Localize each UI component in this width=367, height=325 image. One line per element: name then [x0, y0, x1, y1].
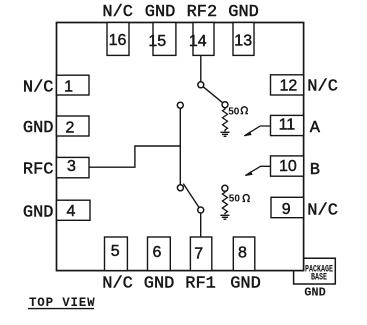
contact circle top of common bus	[177, 102, 183, 108]
pin 10	[271, 156, 304, 176]
svg-text:GND: GND	[144, 274, 175, 293]
pin 2	[57, 116, 90, 136]
wire from contact down to pin 7 RF1	[200, 210, 202, 237]
svg-text:N/C: N/C	[307, 78, 338, 97]
svg-text:13: 13	[234, 32, 252, 49]
pin 4	[57, 200, 91, 220]
svg-text:14: 14	[189, 33, 207, 50]
pin 9	[271, 197, 304, 218]
contact circle on RF2 line	[198, 82, 204, 88]
package base pad box	[294, 258, 336, 284]
ground (top resistor)	[221, 132, 230, 136]
pin 7	[190, 237, 211, 271]
svg-text:10: 10	[279, 158, 297, 175]
svg-text:GND: GND	[228, 3, 259, 22]
pin 11	[271, 115, 304, 135]
svg-text:50: 50	[228, 106, 240, 117]
svg-text:8: 8	[238, 244, 247, 261]
wire from pin 14 RF2 down to contact	[200, 55, 202, 84]
ground (bottom resistor)	[220, 215, 229, 219]
svg-text:N/C: N/C	[102, 274, 133, 293]
svg-text:6: 6	[153, 244, 162, 261]
wire common bus	[179, 105, 181, 188]
svg-text:A: A	[310, 119, 321, 138]
svg-text:12: 12	[280, 77, 298, 94]
switch arm common to RF1	[183, 184, 200, 210]
control arrow into pin 10 (B)	[245, 166, 270, 175]
pin 13	[233, 23, 254, 56]
svg-text:GND: GND	[23, 203, 54, 222]
label PACKAGE BASE	[305, 263, 333, 282]
svg-text:BASE: BASE	[311, 271, 327, 283]
svg-text:GND: GND	[23, 119, 54, 138]
svg-text:15: 15	[148, 33, 166, 50]
switch arm RF2 to 50 ohm termination	[201, 85, 225, 105]
svg-text:RFC: RFC	[23, 161, 54, 180]
pin 15	[148, 23, 175, 56]
wire RFC feed from pin 3 to common bus	[89, 146, 180, 167]
svg-text:3: 3	[67, 158, 76, 175]
contact circle on RF1 line	[198, 207, 204, 213]
contact circle bottom of common bus	[177, 185, 183, 191]
svg-text:GND: GND	[304, 285, 326, 299]
svg-text:RF1: RF1	[185, 274, 216, 293]
pin 3	[57, 157, 90, 177]
pin 14	[189, 23, 214, 56]
svg-text:N/C: N/C	[23, 78, 54, 97]
package outline	[57, 23, 304, 271]
svg-text:4: 4	[66, 203, 75, 220]
svg-text:9: 9	[282, 201, 291, 218]
svg-text:GND: GND	[145, 3, 176, 22]
svg-text:GND: GND	[230, 274, 261, 293]
svg-text:B: B	[310, 161, 320, 180]
control arrow into pin 11 (A)	[244, 126, 270, 136]
svg-text:N/C: N/C	[102, 3, 133, 22]
svg-text:2: 2	[66, 119, 75, 136]
svg-text:N/C: N/C	[307, 201, 338, 220]
svg-text:7: 7	[194, 246, 203, 263]
svg-text:1: 1	[64, 79, 73, 96]
resistor R2 50 ohm (bottom)	[222, 185, 228, 191]
svg-text:5: 5	[111, 243, 120, 260]
svg-text:TOP VIEW: TOP VIEW	[29, 296, 95, 310]
svg-text:11: 11	[279, 117, 296, 134]
pin 16	[107, 23, 129, 56]
svg-text:16: 16	[109, 32, 127, 49]
pin 1	[57, 75, 90, 95]
pin 12	[271, 75, 304, 95]
pin 5	[105, 237, 128, 271]
resistor R1 50 ohm (top)	[222, 102, 228, 108]
svg-text:RF2: RF2	[187, 3, 218, 22]
svg-text:50: 50	[229, 194, 241, 205]
pin 8	[233, 237, 255, 271]
pin 6	[148, 237, 171, 271]
